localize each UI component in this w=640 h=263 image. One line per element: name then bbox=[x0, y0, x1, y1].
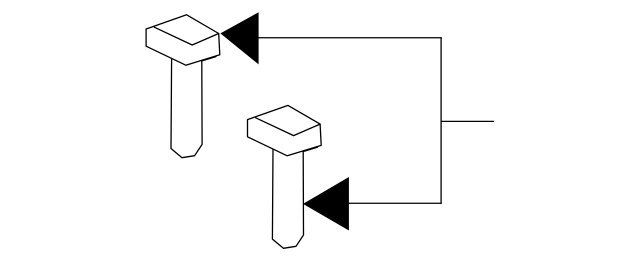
bolt 2 head outline bbox=[248, 105, 322, 155]
leader arrow 1 (points at bolt 1 head) bbox=[220, 12, 258, 64]
bolt 2 (lower-right flange bolt, same part translated) bbox=[248, 105, 322, 248]
bolt 1 head outline bbox=[146, 15, 220, 65]
wire: top horizontal from arrow 1 to bracket bbox=[258, 37, 441, 39]
bolt 2 head chamfer lines bbox=[256, 118, 320, 136]
bolt 2 shaft bbox=[272, 149, 303, 248]
wire: bracket vertical bbox=[440, 37, 442, 204]
bolt 1 head chamfer lines bbox=[154, 27, 218, 45]
bolt 1 head lower-right doubled edge bbox=[202, 57, 217, 61]
leader arrow 2 (points at bolt 2 shaft) bbox=[303, 177, 349, 231]
wire: callout stub to the right bbox=[441, 120, 494, 122]
wire: bottom horizontal from arrow 2 to bracket bbox=[349, 202, 442, 204]
bolt 2 head lower-right doubled edge bbox=[303, 147, 318, 151]
bolt 1 shaft bbox=[171, 58, 202, 157]
bolt 1 (upper-left flange bolt) bbox=[146, 15, 220, 158]
